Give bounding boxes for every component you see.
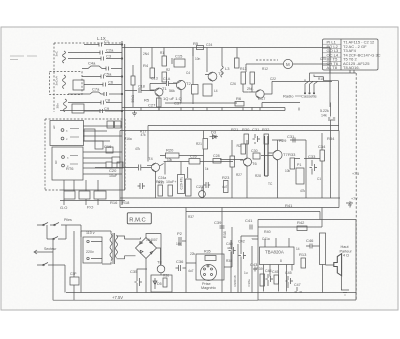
capacitor C18 (125, 88, 154, 93)
parts table box (323, 39, 379, 70)
resistor R2 (162, 72, 167, 82)
trimmer box row6 (72, 104, 84, 113)
small parts cluster (95, 141, 103, 149)
svg-text:44u: 44u (227, 246, 232, 250)
svg-text:T8: T8 (157, 260, 162, 265)
svg-text:C41a: C41a (262, 237, 270, 241)
transformer TR1 primary (110, 234, 112, 261)
svg-text:D5: D5 (157, 282, 162, 286)
cap C47 (295, 287, 303, 292)
wire into amp (258, 208, 322, 228)
svg-text:T1: T1 (162, 86, 167, 91)
cap C35 (135, 269, 148, 293)
contact a (61, 129, 64, 132)
resistor R43 (301, 258, 306, 268)
svg-text:47k: 47k (141, 133, 147, 137)
transistor T3b (256, 90, 264, 98)
svg-text:C35: C35 (130, 269, 138, 274)
svg-text:R16: R16 (110, 200, 118, 205)
svg-text:C41: C41 (245, 218, 253, 223)
mid bottom rail (120, 197, 340, 199)
svg-text:T4: T4 (148, 156, 153, 161)
resistor R26 (241, 144, 246, 154)
svg-text:+7V: +7V (351, 197, 358, 201)
switch box markings (52, 124, 69, 168)
coil winding labels (55, 50, 60, 108)
capacitor C29b (186, 179, 192, 196)
margin note marks (10, 56, 37, 60)
svg-text:Secteur: Secteur (44, 247, 57, 251)
svg-text:T3: T3 (218, 71, 223, 76)
svg-text:C38a: C38a (247, 279, 251, 287)
svg-text:C15: C15 (175, 54, 183, 59)
mains switch row2 (47, 237, 66, 240)
svg-text:4 Ω: 4 Ω (343, 254, 349, 258)
svg-text:47k: 47k (300, 189, 306, 193)
wire vertical x193 (192, 48, 194, 57)
cap C31 (253, 134, 261, 144)
ground right (346, 203, 353, 207)
svg-text:C2a: C2a (106, 48, 114, 53)
amp outer box (258, 220, 356, 301)
resistor R36 (163, 278, 167, 287)
right components column (320, 150, 325, 161)
svg-text:C4a: C4a (88, 61, 96, 66)
wires T6 region (220, 140, 247, 198)
label Haut Parleur (340, 245, 353, 258)
svg-text:2N..: 2N.. (247, 87, 254, 91)
wire tap C2 (68, 52, 122, 54)
svg-text:R12: R12 (262, 67, 268, 71)
svg-text:R41: R41 (285, 203, 293, 208)
wire tap C3 (68, 58, 122, 60)
svg-text:C18: C18 (138, 85, 145, 89)
svg-text:+7V: +7V (349, 200, 353, 207)
cap C32a right (328, 103, 335, 199)
wire tap C1 (84, 44, 122, 46)
svg-text:C36: C36 (176, 259, 184, 264)
svg-text:R1: R1 (160, 51, 164, 55)
input wire to T4 (95, 165, 151, 171)
DIN socket circle (201, 265, 217, 281)
transistor T1 (155, 88, 163, 96)
wire tap C9 (84, 110, 122, 112)
svg-text:C27: C27 (148, 103, 156, 108)
svg-text:110 v: 110 v (86, 231, 95, 235)
capacitor C28 box (213, 159, 221, 164)
resistor R6 (235, 102, 244, 107)
wires power (43, 225, 81, 300)
resistor R5 (235, 58, 240, 68)
cap C30 (253, 153, 260, 159)
svg-text:R33: R33 (288, 152, 296, 157)
bottom RF bus (double) (60, 103, 300, 111)
svg-text:C37: C37 (174, 101, 182, 106)
transistor T3 (208, 72, 217, 81)
svg-text:C4: C4 (186, 71, 190, 75)
DIN socket box (196, 254, 224, 280)
svg-text:+7.5V: +7.5V (112, 295, 123, 300)
coil L2 (PO winding) (63, 75, 66, 89)
svg-text:G.O: G.O (60, 205, 67, 210)
wire tap C5 (82, 76, 122, 78)
feedback wire R41 (186, 212, 320, 220)
pot P2 (179, 237, 186, 246)
capacitor C21 (138, 183, 146, 189)
svg-text:47k: 47k (135, 147, 141, 151)
svg-text:R34: R34 (327, 136, 335, 141)
svg-text:C28: C28 (213, 154, 220, 158)
svg-text:C26: C26 (230, 82, 236, 86)
resistor R35 (205, 256, 216, 261)
wire tap C8 (68, 102, 122, 104)
svg-text:C25: C25 (320, 57, 326, 61)
svg-text:C24: C24 (206, 43, 212, 47)
svg-text:C45: C45 (285, 271, 292, 275)
svg-text:C1: C1 (317, 177, 321, 181)
table row lines (323, 44, 342, 65)
svg-text:Piles: Piles (64, 218, 72, 222)
svg-text:C17: C17 (258, 96, 266, 101)
svg-text:C13: C13 (151, 77, 158, 81)
svg-text:R28: R28 (255, 174, 261, 178)
bridge rectifier D1-D4 (136, 238, 157, 259)
main vertical x186 (185, 208, 187, 293)
osc coil box (192, 85, 199, 95)
svg-text:R2: R2 (166, 68, 170, 72)
svg-text:C8: C8 (105, 98, 111, 103)
svg-text:C6: C6 (108, 80, 114, 85)
bridge wires (125, 234, 162, 293)
capacitor C28 (189, 159, 200, 165)
node wires mid (156, 162, 234, 199)
wire table to bus (350, 70, 354, 73)
svg-text:C30: C30 (251, 149, 258, 153)
capacitor C16 (150, 81, 178, 91)
svg-text:8: 8 (280, 259, 282, 263)
svg-text:1k: 1k (205, 167, 209, 171)
table text rows left (327, 40, 381, 71)
svg-text:10uF: 10uF (109, 174, 118, 178)
cap C45b (286, 276, 294, 288)
label RMC box (127, 213, 151, 224)
zener D5 (153, 278, 157, 289)
speaker wires (341, 276, 343, 290)
IC pins (264, 238, 293, 292)
svg-text:14: 14 (296, 247, 300, 251)
svg-text:R39: R39 (256, 267, 263, 271)
resistor R30 (244, 134, 249, 144)
selector wires (81, 231, 111, 259)
svg-text:T2: T2 (186, 81, 191, 86)
coil L1 (GO winding) (63, 51, 66, 63)
svg-text:4u7: 4u7 (222, 185, 228, 189)
resistor R14 (250, 72, 255, 84)
trimmer box row4 (73, 80, 84, 90)
svg-text:C31: C31 (287, 134, 295, 139)
svg-text:10n: 10n (195, 57, 201, 61)
resistor R33 (290, 158, 295, 169)
resistor R22 network (158, 185, 163, 196)
resistor R42 (297, 226, 307, 231)
svg-text:14k: 14k (321, 114, 327, 118)
pot RT5 (107, 121, 114, 128)
diode D1 (251, 63, 253, 65)
svg-text:1u: 1u (244, 271, 248, 275)
svg-text:L3: L3 (225, 66, 230, 71)
svg-text:56k: 56k (169, 89, 175, 93)
wire T1 emitter down (159, 90, 193, 110)
pot RT4 (115, 121, 122, 128)
svg-text:T8 AD16.: T8 AD16. (343, 65, 360, 70)
transistor T6 (244, 158, 252, 166)
resistor R4 (150, 68, 155, 78)
motor wires (246, 64, 330, 72)
svg-text:10uF+: 10uF+ (166, 180, 176, 184)
svg-text:C22: C22 (270, 77, 276, 81)
svg-text:4u7: 4u7 (188, 269, 194, 273)
svg-text:R37: R37 (188, 215, 194, 219)
svg-text:R21: R21 (196, 142, 202, 146)
resistor R20 (166, 153, 180, 158)
head symbol (tape head) (265, 136, 269, 176)
cap C40 (229, 240, 236, 293)
svg-text:R.M.C: R.M.C (129, 217, 145, 223)
cap C33 (310, 160, 318, 175)
vertical bus ticks (141, 108, 299, 111)
wire tap C7 (68, 92, 122, 94)
svg-text:P.O: P.O (87, 205, 93, 210)
resistor R25 (230, 156, 235, 167)
fuse box (70, 277, 79, 285)
svg-text:1N4007: 1N4007 (146, 238, 158, 242)
contact d (62, 164, 65, 167)
diode D3 (210, 135, 219, 139)
bus bottom (53, 293, 356, 301)
switch top wires (272, 48, 356, 131)
IC TBA820A box (260, 247, 295, 265)
cap C36 (176, 265, 187, 271)
box P1 volume (296, 168, 304, 184)
svg-text:C1: C1 (104, 39, 110, 44)
main switch bus (122, 41, 125, 205)
capacitor C25 (204, 182, 211, 188)
label Prise Magneto (201, 282, 216, 290)
cap C41 (250, 225, 252, 230)
coil L3 IF (221, 66, 224, 77)
svg-text:C44: C44 (265, 269, 272, 273)
svg-text:Magnéto: Magnéto (201, 286, 216, 290)
svg-text:R42: R42 (297, 220, 305, 225)
svg-text:C45: C45 (272, 270, 279, 274)
svg-text:R22: R22 (156, 180, 163, 184)
svg-text:22k: 22k (190, 252, 196, 256)
regulator T8 (157, 265, 165, 273)
svg-text:R38C38: R38C38 (233, 275, 237, 286)
top supply rail (122, 47, 330, 49)
svg-text:R30: R30 (242, 127, 250, 132)
resistor R5 series (197, 46, 204, 50)
svg-text:3Bn: 3Bn (56, 103, 60, 109)
transistor T7 (273, 150, 282, 159)
cap C46 output (306, 244, 316, 249)
antenna assembly dashed box (45, 43, 125, 190)
ground amp (341, 290, 349, 295)
svg-text:R27: R27 (236, 173, 242, 177)
svg-text:C7a: C7a (92, 87, 100, 92)
svg-text:R4: R4 (143, 63, 149, 68)
transistor T4 (151, 163, 159, 171)
svg-text:R13: R13 (240, 67, 247, 71)
svg-text:P1: P1 (297, 163, 301, 167)
switch block S2 (52, 147, 83, 180)
svg-text:C29 47u: C29 47u (180, 177, 184, 190)
wires T7 region (261, 140, 306, 198)
svg-text:10k: 10k (176, 242, 182, 246)
contact c (62, 156, 65, 159)
svg-text:RT6: RT6 (66, 166, 74, 171)
svg-text:56kΩ: 56kΩ (131, 94, 135, 102)
wire tap C4 with hump (82, 66, 122, 69)
bottom wires (60, 190, 125, 205)
resistor R13 (241, 72, 246, 84)
contact b (61, 137, 64, 140)
main vertical x222 (221, 208, 223, 293)
svg-text:R16a: R16a (124, 137, 132, 141)
cap C43 (253, 267, 257, 272)
svg-text:D3: D3 (211, 130, 217, 135)
svg-text:R35: R35 (204, 250, 211, 254)
row3 contact (37, 263, 65, 293)
transistor T2 (176, 80, 185, 89)
svg-text:C5a: C5a (104, 72, 112, 77)
svg-text:5.22k: 5.22k (320, 109, 329, 113)
mains switch row1 (37, 223, 81, 226)
svg-text:220v: 220v (86, 250, 94, 254)
wire tap C6 (84, 84, 122, 86)
svg-text:R38: R38 (223, 231, 227, 238)
regulator network box (151, 275, 172, 292)
rail taps down (141, 48, 237, 105)
junction cross (132, 111, 137, 117)
resistor R21 (203, 139, 208, 150)
wires DIN (186, 227, 232, 267)
coil L3 (OC winding) (64, 99, 67, 112)
svg-text:R23: R23 (222, 175, 230, 180)
resistor R32 (264, 134, 269, 144)
wire to right edge (295, 158, 321, 160)
svg-text:10k: 10k (285, 169, 291, 173)
svg-text:R32: R32 (262, 127, 270, 132)
svg-text:T6: T6 (252, 161, 257, 166)
cap C39 (220, 226, 225, 228)
svg-text:C26: C26 (190, 155, 197, 159)
svg-text:Radio: Radio (283, 94, 294, 99)
bottom contact rect row (64, 191, 75, 199)
misc tiny labels (143, 51, 326, 93)
svg-text:R18: R18 (122, 200, 130, 205)
svg-text:AL T8: AL T8 (327, 65, 338, 70)
transformer TR1 secondary (116, 235, 118, 258)
resistor R5b (157, 98, 162, 107)
Radio-Cassette switch contacts (305, 82, 318, 93)
capacitor C15 (174, 59, 185, 67)
svg-text:C1A: C1A (163, 77, 171, 81)
svg-text:3xCnA: 3xCnA (55, 75, 59, 85)
resistor R23 (224, 181, 229, 193)
svg-text:R21: R21 (231, 127, 239, 132)
small box C19 (84, 129, 95, 141)
speaker cone (334, 254, 342, 276)
svg-text:C23: C23 (196, 184, 204, 189)
mid rail y103 (193, 102, 237, 104)
svg-text:R40: R40 (264, 230, 271, 234)
cap electrolytic C23 (199, 191, 206, 198)
svg-text:C46: C46 (306, 238, 314, 243)
svg-text:2N4: 2N4 (143, 52, 149, 56)
svg-text:C16: C16 (104, 144, 112, 149)
svg-text:R20: R20 (166, 148, 174, 153)
svg-text:C39: C39 (214, 220, 222, 225)
table divider (340, 39, 342, 70)
svg-text:R29: R29 (279, 138, 287, 143)
svg-text:3xC: 3xC (55, 50, 59, 56)
svg-text:C3P: C3P (70, 272, 77, 276)
transformer core (113, 233, 115, 264)
motor M1 (283, 59, 292, 68)
cap C44 (266, 274, 274, 286)
svg-text:C31: C31 (252, 127, 260, 132)
voltage selector box (83, 237, 102, 263)
wire from rf to right (329, 48, 331, 107)
svg-text:M: M (286, 62, 290, 67)
cap C42 (239, 249, 247, 263)
IF transformer box (203, 84, 212, 96)
svg-text:R13: R13 (299, 252, 307, 257)
svg-text:Cassette: Cassette (301, 94, 318, 99)
wires around T3b (243, 84, 272, 94)
cap C32 (290, 138, 296, 143)
svg-text:L4: L4 (214, 89, 218, 93)
plug left (34, 250, 43, 254)
speaker cabinet (320, 233, 326, 265)
cap C45 (274, 275, 279, 284)
svg-text:TBA820A: TBA820A (265, 250, 284, 255)
svg-text:TC: TC (268, 182, 273, 186)
svg-text:C42: C42 (238, 240, 245, 244)
svg-text:+7.5: +7.5 (352, 172, 359, 176)
svg-text:C3: C3 (106, 54, 112, 59)
svg-text:C20: C20 (109, 168, 117, 173)
svg-text:R36: R36 (163, 274, 169, 278)
resistor R1 (162, 56, 167, 66)
matrix wires (64, 126, 122, 191)
svg-text:C47: C47 (294, 283, 301, 287)
box C29 (178, 175, 185, 194)
transformer wires (102, 231, 125, 264)
extra small parts (131, 76, 135, 85)
bottom row parts: R39 (260, 274, 265, 286)
svg-text:R6: R6 (236, 96, 242, 101)
svg-text:P2: P2 (177, 231, 183, 236)
supply rail above preamp box (148, 126, 339, 162)
preamp outer box (120, 131, 339, 208)
switch block S1 (50, 121, 84, 146)
